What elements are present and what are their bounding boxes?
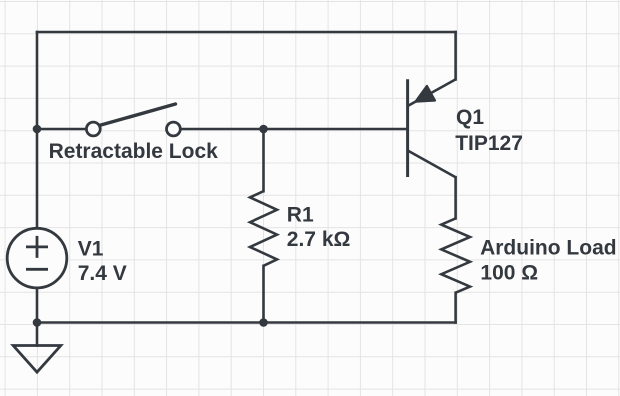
- wire node A to Q1 base: [264, 128, 408, 131]
- switch SW1 Retractable Lock: [86, 104, 180, 136]
- wire bottom rail: [37, 321, 456, 324]
- resistor R1: [250, 191, 277, 266]
- wire ground node to ground symbol: [36, 323, 39, 346]
- wire load resistor bottom to bottom rail: [454, 293, 457, 323]
- svg-text:7.4 V: 7.4 V: [78, 262, 127, 285]
- svg-text:V1: V1: [78, 238, 104, 261]
- ground: [13, 346, 61, 373]
- svg-text:Arduino Load: Arduino Load: [480, 236, 616, 259]
- resistor Arduino Load: [441, 218, 470, 292]
- voltage source V1: [7, 228, 67, 288]
- wire Q1 emitter vertical: [454, 32, 457, 79]
- svg-text:TIP127: TIP127: [455, 132, 523, 155]
- node: switch left junction: [33, 125, 42, 134]
- node ground-left junction: [33, 318, 42, 327]
- transistor Q1 TIP127 (PNP): [408, 79, 456, 177]
- node A junction (base / R1 top): [259, 125, 268, 134]
- svg-text:2.7 kΩ: 2.7 kΩ: [287, 228, 351, 251]
- node R1 bottom junction: [259, 318, 268, 327]
- wire R1 bottom to bottom rail: [262, 266, 265, 323]
- svg-text:R1: R1: [287, 204, 314, 227]
- wire switch node to SW1 left terminal: [37, 128, 87, 131]
- wire SW1 right terminal to node A: [180, 128, 263, 131]
- svg-text:100 Ω: 100 Ω: [480, 262, 538, 285]
- collector diagonal: [408, 151, 456, 178]
- wire top rail from left corner to Q1 emitter: [37, 31, 456, 34]
- wire node A down to R1 top: [262, 129, 265, 191]
- wire left rail vertical (top corner down to switch node): [36, 32, 39, 129]
- emitter arrow: [416, 86, 436, 102]
- wire V1 bottom terminal down to ground node: [36, 288, 39, 323]
- svg-text:Retractable Lock: Retractable Lock: [49, 140, 219, 163]
- base bar: [406, 79, 409, 177]
- wire Q1 collector to load resistor top: [454, 177, 457, 218]
- wire switch node down to V1 top terminal: [36, 129, 39, 228]
- svg-text:Q1: Q1: [456, 106, 484, 129]
- emitter diagonal: [408, 79, 456, 106]
